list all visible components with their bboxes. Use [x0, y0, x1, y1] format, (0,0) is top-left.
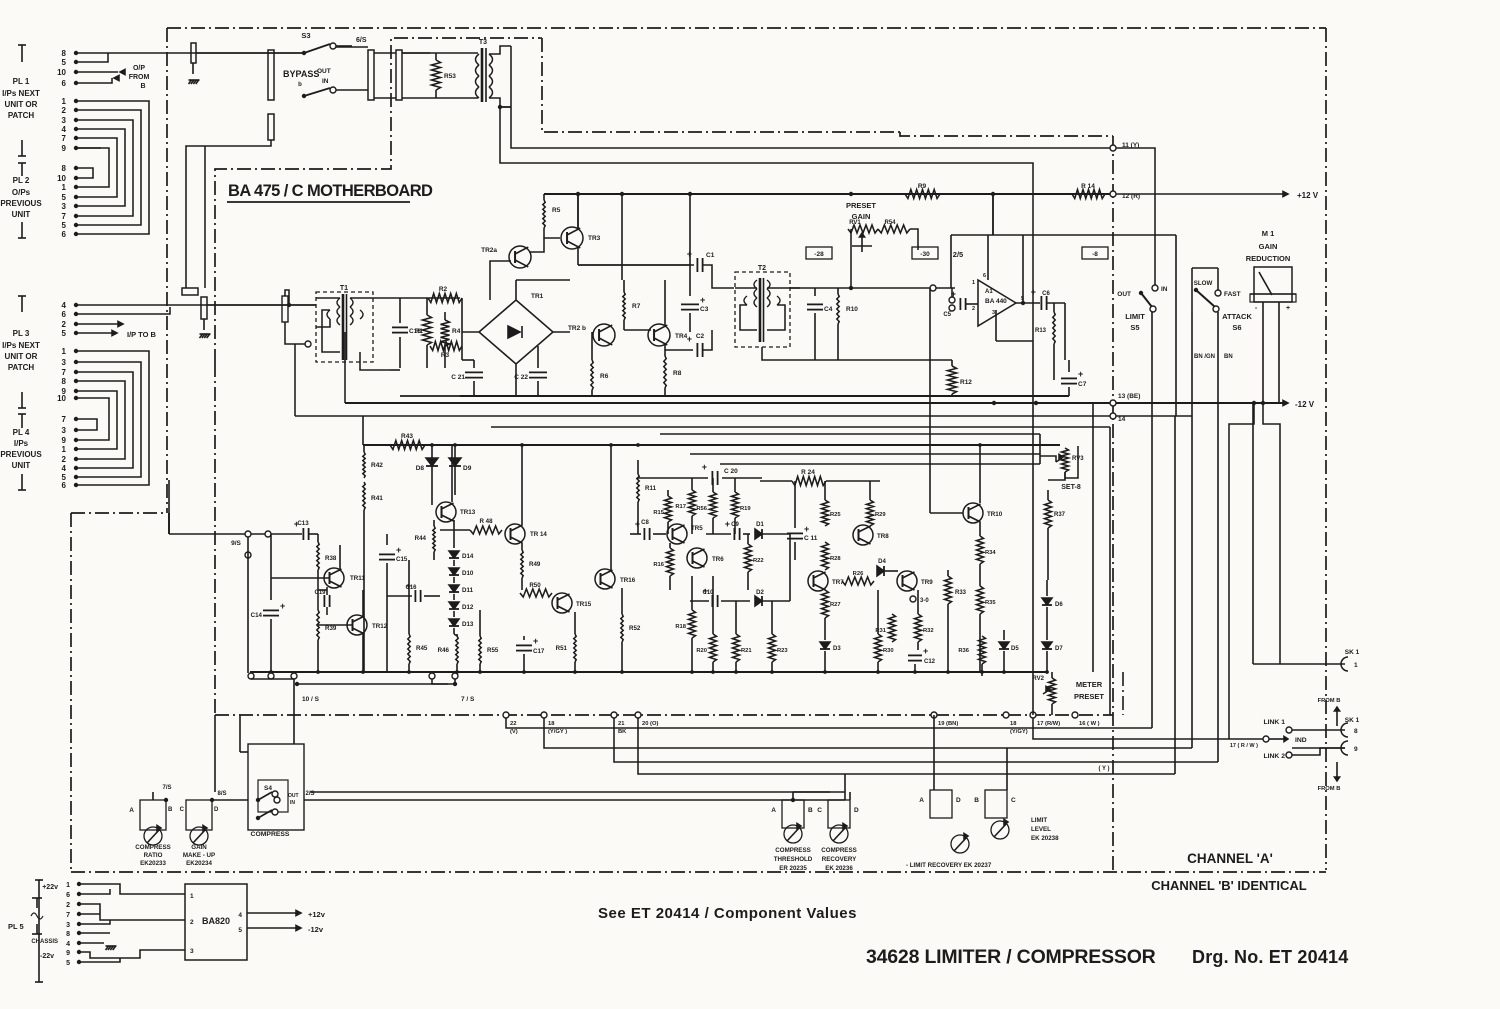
- wire top-section ground rail joins: [400, 395, 460, 397]
- svg-text:O/Ps: O/Ps: [12, 188, 31, 197]
- bracket PL1: [21, 45, 23, 62]
- svg-text:8: 8: [62, 164, 67, 173]
- svg-text:R 24: R 24: [801, 469, 815, 476]
- resistor R8: [664, 344, 666, 356]
- svg-text:TR16: TR16: [620, 577, 636, 584]
- svg-text:LIMIT: LIMIT: [1125, 312, 1145, 321]
- transistor TR2a: [509, 246, 531, 268]
- wire -12V jog to IND: [1229, 403, 1254, 739]
- transformer T2 core: [759, 278, 762, 342]
- wire mid main rail: [363, 444, 1060, 446]
- trimpot LIMIT LEVEL: [985, 790, 1007, 818]
- diode D4: [877, 566, 884, 576]
- svg-text:R44: R44: [415, 535, 427, 542]
- jack J2 sleeve: [182, 288, 198, 295]
- resistor R2: [428, 294, 462, 303]
- svg-text:BA 475 / C MOTHERBOARD: BA 475 / C MOTHERBOARD: [228, 182, 433, 200]
- wire T3 secondary bottom: [489, 98, 511, 107]
- resistor R23: [771, 601, 773, 634]
- potentiometer RV2 meter preset: [1051, 672, 1053, 678]
- resistor R50: [520, 589, 552, 597]
- resistor R7: [623, 280, 625, 292]
- wire TR11 wiring: [339, 545, 341, 569]
- svg-text:LIMIT: LIMIT: [1031, 817, 1047, 824]
- svg-text:TR13: TR13: [460, 509, 476, 516]
- svg-text:PATCH: PATCH: [8, 111, 35, 120]
- transistor TR6: [687, 548, 707, 568]
- svg-text:TR2a: TR2a: [481, 247, 497, 254]
- node 13 (BE): [1110, 400, 1116, 406]
- ground input jack: [203, 319, 205, 330]
- svg-text:8: 8: [1354, 728, 1358, 735]
- wire chassis left border lower: [70, 513, 72, 872]
- transformer T2 dashed box: [735, 272, 790, 347]
- svg-text:RV2: RV2: [1032, 676, 1044, 682]
- svg-text:B: B: [168, 807, 173, 813]
- svg-text:+: +: [700, 295, 705, 305]
- svg-text:GAIN: GAIN: [1259, 242, 1278, 251]
- svg-text:R25: R25: [830, 512, 841, 518]
- resistor R56: [712, 478, 714, 492]
- svg-text:D3: D3: [833, 646, 841, 652]
- svg-text:R37: R37: [1054, 512, 1066, 518]
- trimpot LIMIT RECOVERY: [930, 790, 952, 818]
- wire opamp feedback to line B: [996, 340, 1033, 342]
- svg-text:C9: C9: [731, 522, 739, 528]
- wire PL3-PL4 nested loops: [76, 351, 149, 485]
- bracket PL2: [21, 163, 23, 176]
- wire 14 line: [295, 415, 1110, 417]
- svg-text:D: D: [956, 797, 961, 804]
- svg-text:TR3: TR3: [588, 235, 601, 242]
- potentiometer RV3: [1062, 448, 1069, 472]
- svg-text:3: 3: [190, 948, 194, 955]
- wire C21 top: [462, 359, 474, 361]
- svg-text:21: 21: [618, 721, 625, 727]
- transistor TR5: [667, 524, 687, 544]
- svg-text:B: B: [974, 797, 979, 804]
- svg-text:MAKE - UP: MAKE - UP: [183, 852, 215, 859]
- svg-text:RECOVERY: RECOVERY: [822, 856, 857, 863]
- svg-text:CHANNEL 'A': CHANNEL 'A': [1187, 851, 1273, 866]
- svg-text:FROM B: FROM B: [1318, 698, 1341, 704]
- svg-text:6: 6: [983, 273, 986, 279]
- svg-text:RV1: RV1: [849, 220, 861, 226]
- svg-text:UNIT OR: UNIT OR: [5, 100, 38, 109]
- wire lower horizontal bus y792: [310, 791, 845, 793]
- resistor R5: [543, 194, 545, 200]
- wire TR4 base R7: [624, 329, 651, 331]
- svg-text:R55: R55: [487, 647, 499, 654]
- svg-text:O/P: O/P: [133, 65, 145, 72]
- svg-text:D2: D2: [756, 590, 764, 596]
- svg-text:3-0: 3-0: [920, 598, 929, 604]
- svg-text:5: 5: [62, 193, 67, 202]
- svg-text:COMPRESS: COMPRESS: [135, 844, 170, 851]
- resistor R38: [317, 534, 319, 542]
- wire bundle mid verticals down from rails: [577, 194, 579, 229]
- svg-text:+22v: +22v: [42, 884, 58, 891]
- wire bypass lower loop: [205, 140, 271, 146]
- svg-text:9: 9: [1354, 746, 1358, 753]
- svg-text:8: 8: [62, 49, 67, 58]
- wire preset gain node: [850, 229, 852, 288]
- wire chassis left border step: [71, 512, 167, 514]
- svg-text:TR9: TR9: [921, 579, 933, 586]
- transistor TR14: [505, 524, 525, 544]
- wire bridge connections: [515, 364, 517, 396]
- svg-text:17 ( R / W ): 17 ( R / W ): [1230, 743, 1258, 749]
- capacitor C21: [473, 360, 475, 368]
- svg-text:+: +: [1078, 369, 1083, 379]
- bypass jack bar right: [368, 50, 374, 100]
- svg-text:7/S: 7/S: [162, 785, 171, 791]
- svg-text:C: C: [817, 807, 822, 814]
- wire opamp power pins: [987, 235, 989, 280]
- resistor R36: [981, 672, 983, 676]
- diode D9: [454, 445, 456, 458]
- svg-text:R16: R16: [653, 562, 664, 568]
- diode D8: [431, 445, 433, 458]
- svg-text:A: A: [771, 807, 776, 814]
- svg-text:3: 3: [992, 310, 995, 316]
- svg-text:R21: R21: [741, 648, 752, 654]
- resistor R34: [979, 522, 981, 536]
- svg-text:34628 LIMITER / COMPRESSOR: 34628 LIMITER / COMPRESSOR: [866, 946, 1156, 968]
- svg-text:R36: R36: [958, 648, 969, 654]
- svg-text:6: 6: [62, 310, 67, 319]
- resistor R1: [426, 298, 428, 315]
- wire BA820 -12v out: [247, 927, 298, 929]
- svg-text:R45: R45: [416, 645, 428, 652]
- wire 9S feed from border step: [168, 480, 170, 534]
- resistor R24: [792, 477, 826, 486]
- svg-text:2: 2: [66, 902, 70, 909]
- wire T1 secondary out: [350, 297, 390, 299]
- wire mid rails from top section: [460, 395, 1069, 397]
- svg-text:SET-8: SET-8: [1061, 484, 1081, 491]
- resistor R41: [363, 482, 365, 510]
- wire bus from op-amp zone down: [992, 194, 994, 235]
- wire S4 top link: [240, 751, 248, 753]
- svg-text:2: 2: [972, 306, 975, 312]
- svg-text:+: +: [533, 636, 538, 646]
- svg-text:2: 2: [62, 455, 67, 464]
- resistor R51: [574, 612, 576, 634]
- resistor R46: [456, 634, 458, 636]
- wire PL5 pin wiring: [79, 884, 185, 894]
- wire T2 leads: [735, 287, 757, 289]
- svg-text:( Y ): ( Y ): [1098, 766, 1109, 772]
- svg-text:3: 3: [66, 922, 70, 929]
- wire T1 jack lower: [282, 296, 288, 322]
- svg-text:COMPRESS: COMPRESS: [821, 847, 856, 854]
- svg-text:TR8: TR8: [877, 533, 889, 540]
- svg-text:C1: C1: [706, 252, 715, 259]
- meter needle: [1259, 272, 1272, 295]
- svg-text:R15: R15: [653, 510, 664, 516]
- wire opamp input network: [930, 285, 936, 291]
- svg-text:1: 1: [190, 893, 194, 900]
- svg-text:EK 20236: EK 20236: [825, 865, 853, 872]
- svg-text:I/Ps NEXT: I/Ps NEXT: [2, 89, 40, 98]
- transistor TR2b: [593, 324, 615, 346]
- svg-text:METER: METER: [1076, 680, 1103, 689]
- wire C1 to T2: [703, 265, 734, 288]
- svg-text:R27: R27: [830, 602, 841, 608]
- resistor R25: [824, 481, 826, 500]
- wire TR12: [362, 634, 364, 672]
- wire TR3 emitter line right to C1: [578, 264, 690, 266]
- svg-text:3: 3: [62, 426, 67, 435]
- arrow from B bottom: [1336, 762, 1338, 781]
- svg-text:S3: S3: [301, 31, 310, 40]
- wire PL3 pin5 to I/P TO B: [76, 332, 112, 334]
- svg-text:D: D: [214, 807, 219, 813]
- wire mid rail left riser: [362, 416, 364, 445]
- svg-text:C14: C14: [251, 612, 263, 619]
- transformer T3 primary coil: [476, 54, 480, 65]
- svg-text:R4: R4: [452, 328, 461, 335]
- svg-text:R38: R38: [325, 555, 337, 562]
- resistor R54: [878, 225, 910, 233]
- svg-text:IN: IN: [322, 78, 329, 85]
- resistor R9: [905, 190, 940, 199]
- svg-text:R50: R50: [529, 582, 541, 589]
- resistor R15: [667, 490, 669, 496]
- diode D6: [1046, 580, 1048, 596]
- svg-text:ER 20235: ER 20235: [779, 865, 807, 872]
- svg-text:+: +: [280, 601, 285, 611]
- svg-text:+: +: [635, 519, 640, 529]
- svg-text:PL 2: PL 2: [13, 176, 30, 185]
- diode chain D14 D10 D11 D12 D13: [453, 520, 455, 548]
- transistor TR11: [324, 568, 344, 588]
- svg-text:(Y/GY ): (Y/GY ): [548, 729, 567, 735]
- wire TR3 collector to +12V rail: [577, 194, 579, 229]
- wire rail y416 riser: [294, 344, 296, 416]
- svg-text:6: 6: [62, 79, 67, 88]
- wire motherboard border top-left corner: [215, 38, 540, 363]
- resistor R28: [822, 542, 829, 570]
- wire -12V jog b: [1263, 403, 1280, 664]
- wire mid band bus right riser: [1039, 434, 1041, 464]
- capacitor C22: [537, 346, 539, 368]
- svg-text:ATTACK: ATTACK: [1222, 312, 1252, 321]
- svg-text:R32: R32: [923, 628, 934, 634]
- wire verticals +12V rail hangers: [621, 194, 623, 280]
- svg-text:EK 20238: EK 20238: [1031, 835, 1059, 842]
- capacitor C4: [814, 288, 816, 296]
- resistor R3: [430, 342, 462, 351]
- op-amp A1 BA440 triangle: [978, 280, 1016, 326]
- wire input line PL3 to T1: [182, 304, 316, 306]
- wire PL1 pin 8 to main input line: [76, 52, 193, 54]
- svg-text:A1: A1: [985, 289, 993, 295]
- capacitor C13: [302, 528, 304, 540]
- node 11 (Y): [1110, 145, 1116, 151]
- svg-text:S4: S4: [264, 785, 272, 792]
- resistor R16: [669, 543, 671, 548]
- capacitor C10: [711, 595, 713, 607]
- wire 11Y onward to limit switch IN: [1116, 148, 1155, 285]
- svg-text:D13: D13: [462, 621, 474, 628]
- svg-text:2: 2: [62, 320, 67, 329]
- svg-text:C7: C7: [1078, 381, 1087, 388]
- svg-text:FROM B: FROM B: [1318, 786, 1341, 792]
- svg-text:PL 3: PL 3: [13, 329, 30, 338]
- svg-text:TR1: TR1: [531, 293, 544, 300]
- svg-text:BYPASS: BYPASS: [283, 69, 319, 79]
- resistor R11: [637, 460, 639, 474]
- svg-text:9: 9: [62, 144, 67, 153]
- svg-text:3: 3: [62, 358, 67, 367]
- wire BA820 +12v out: [247, 912, 298, 914]
- link1 nodes: [1286, 727, 1292, 733]
- svg-text:+12v: +12v: [308, 910, 326, 919]
- svg-text:-12v: -12v: [308, 925, 324, 934]
- transformer T3 core: [481, 48, 484, 102]
- svg-text:+12 V: +12 V: [1297, 191, 1319, 200]
- svg-text:D9: D9: [463, 465, 472, 472]
- svg-text:R6: R6: [600, 373, 609, 380]
- wire to SK1 feed: [1252, 403, 1254, 664]
- svg-text:+: +: [923, 646, 928, 656]
- wire lower horizontal bus y739: [1033, 718, 1263, 739]
- wire mid band bus y464: [720, 463, 1040, 465]
- svg-text:See ET 20414 / Component Va: See ET 20414 / Component Values: [598, 905, 857, 922]
- svg-text:R8: R8: [673, 370, 682, 377]
- ground T3: [500, 106, 511, 108]
- wire TR2a to TR3 base: [529, 238, 544, 252]
- meter lower bar: [1250, 293, 1296, 295]
- resistor R22: [747, 534, 749, 544]
- svg-text:5: 5: [238, 927, 242, 934]
- wire S5 lower contact down: [1151, 312, 1153, 728]
- svg-text:PL 4: PL 4: [13, 428, 30, 437]
- svg-text:C: C: [1011, 797, 1016, 804]
- wire 9/S line: [169, 533, 302, 535]
- svg-text:C2: C2: [696, 333, 705, 340]
- transformer T1 primary: [337, 298, 340, 307]
- jack J3: [201, 297, 207, 319]
- svg-text:7 / S: 7 / S: [461, 696, 475, 703]
- capacitor C18: [399, 298, 401, 323]
- resistor R52: [621, 588, 623, 614]
- wire 7S link: [297, 683, 455, 685]
- ground jack J1: [192, 63, 194, 74]
- svg-text:C17: C17: [533, 648, 545, 655]
- svg-text:7: 7: [62, 212, 67, 221]
- svg-text:-12 V: -12 V: [1295, 400, 1315, 409]
- svg-text:IN: IN: [1161, 286, 1168, 293]
- wire -12V rail: [345, 402, 1285, 404]
- transformer T2 windings: [754, 280, 757, 289]
- svg-text:8: 8: [66, 931, 70, 938]
- svg-text:D11: D11: [462, 587, 474, 594]
- wire chassis bottom border: [71, 871, 1326, 873]
- svg-text:R23: R23: [777, 648, 788, 654]
- wire 7S down: [432, 679, 448, 684]
- svg-text:6: 6: [62, 230, 67, 239]
- svg-text:REDUCTION: REDUCTION: [1246, 254, 1291, 263]
- resistor R10: [837, 288, 839, 294]
- svg-text:PL 1: PL 1: [13, 77, 30, 86]
- svg-text:C 11: C 11: [804, 535, 818, 542]
- svg-text:+: +: [687, 334, 692, 344]
- svg-text:R46: R46: [438, 647, 450, 654]
- svg-text:D12: D12: [462, 604, 474, 611]
- wire PL1 pin 6 to arrow: [76, 78, 112, 83]
- wire main top line from PL1 pin8: [193, 52, 304, 54]
- svg-text:1: 1: [1354, 662, 1358, 669]
- svg-text:BN /GN: BN /GN: [1194, 354, 1215, 360]
- transistor TR3: [561, 227, 583, 249]
- svg-text:C12: C12: [924, 659, 936, 665]
- text -30 level box: [912, 247, 938, 259]
- svg-text:CHASSIS: CHASSIS: [31, 939, 58, 945]
- svg-text:4: 4: [62, 464, 67, 473]
- resistor R45: [408, 560, 410, 634]
- capacitor C1: [578, 264, 694, 266]
- resistor R37: [1047, 490, 1049, 500]
- svg-text:FAST: FAST: [1224, 291, 1241, 298]
- resistor R13: [1053, 303, 1055, 312]
- svg-text:4: 4: [62, 301, 67, 310]
- resistor R42: [363, 445, 365, 452]
- svg-text:R3: R3: [441, 352, 450, 359]
- resistor R21: [735, 601, 737, 634]
- svg-text:+: +: [702, 462, 707, 472]
- resistor R29: [869, 481, 871, 500]
- svg-text:D5: D5: [1011, 646, 1019, 652]
- svg-text:D14: D14: [462, 553, 474, 560]
- svg-text:I/P TO B: I/P TO B: [127, 330, 156, 339]
- wire PL1 pin 5 stub: [76, 53, 108, 62]
- svg-text:R2: R2: [439, 286, 448, 293]
- svg-text:R30: R30: [883, 648, 894, 654]
- svg-text:5: 5: [62, 221, 67, 230]
- transistor TR8: [853, 525, 873, 545]
- wire meter leads to -12V: [1262, 302, 1264, 403]
- svg-text:TR5: TR5: [691, 525, 703, 532]
- capacitor C19: [323, 595, 325, 607]
- svg-text:1: 1: [62, 347, 67, 356]
- resistor R4: [444, 312, 446, 320]
- svg-text:A: A: [919, 797, 924, 804]
- wire meter preset dash box: [1122, 672, 1124, 715]
- wire motherboard border top-right: [540, 37, 542, 39]
- svg-text:COMPRESS: COMPRESS: [251, 831, 290, 838]
- svg-text:SK 1: SK 1: [1345, 649, 1360, 656]
- svg-text:I/Ps: I/Ps: [14, 439, 29, 448]
- wire limit pots leads: [933, 715, 935, 790]
- jack J1 sleeve: [191, 43, 196, 63]
- svg-text:C16: C16: [405, 585, 417, 591]
- svg-text:7: 7: [62, 415, 67, 424]
- transistor TR10: [963, 503, 983, 523]
- switch S4 compress box: [248, 744, 304, 830]
- wire TR10 area: [979, 445, 981, 503]
- svg-text:7: 7: [62, 368, 67, 377]
- svg-text:R26: R26: [853, 571, 864, 577]
- svg-text:LINK 2: LINK 2: [1263, 753, 1285, 760]
- capacitor C5: [949, 297, 955, 303]
- svg-text:b: b: [298, 82, 302, 88]
- svg-text:+: +: [396, 545, 401, 555]
- link2 nodes: [1286, 752, 1292, 758]
- wire x1093 riser: [1092, 403, 1094, 672]
